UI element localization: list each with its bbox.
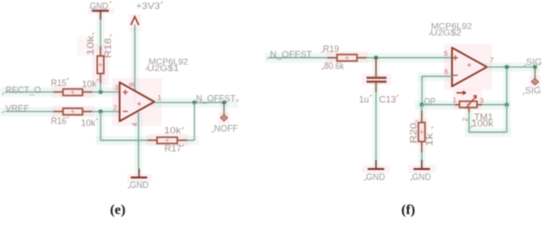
svg-text:N_OFFST: N_OFFST [196, 93, 236, 103]
wire feedback vertical [193, 103, 195, 141]
faint interior ghost line [135, 91, 139, 112]
svg-text:7: 7 [490, 57, 494, 64]
trimmer TM1 [453, 91, 494, 128]
svg-text:SIG: SIG [526, 57, 542, 67]
svg-text:1u: 1u [359, 95, 369, 105]
testpoint SIG diamond [523, 79, 541, 96]
node OP label [422, 97, 436, 107]
wire RECT_O to R15 [5, 91, 54, 93]
wire trimmer pin3 to output vertical [482, 104, 507, 106]
svg-text:C13: C13 [379, 95, 396, 105]
supply +3V3 [131, 1, 163, 25]
svg-text:1k: 1k [425, 132, 435, 146]
svg-text:R20: R20 [409, 123, 419, 144]
wire R19 to opamp +in [367, 57, 453, 59]
svg-text:N_OFFST: N_OFFST [270, 50, 312, 60]
svg-text:GND: GND [366, 172, 385, 183]
svg-text:R17: R17 [165, 144, 182, 154]
wire wiper loop [468, 108, 470, 113]
svg-text:10k: 10k [82, 79, 97, 89]
resistor R18 [86, 33, 114, 84]
ground GND (R20) [410, 160, 431, 183]
haze tints (jpeg-like) [0, 7, 541, 182]
svg-text:3: 3 [480, 98, 484, 105]
wire R18 to node A [100, 83, 102, 92]
svg-text:5: 5 [444, 51, 448, 58]
wire output down to trimmer loop [506, 67, 508, 132]
svg-text:10k: 10k [86, 35, 96, 56]
svg-text:R16: R16 [51, 116, 67, 126]
op-amp U2G$2 [429, 21, 494, 86]
resistor R16 [51, 108, 98, 128]
wire R16 to opamp -in [92, 111, 120, 113]
svg-text:1: 1 [158, 95, 162, 102]
wire OP to trimmer pin1 [422, 104, 455, 106]
svg-text:2: 2 [113, 105, 117, 112]
svg-text:(e): (e) [110, 203, 126, 218]
junction SIG tap [533, 65, 537, 69]
svg-text:NOFF: NOFF [214, 124, 238, 134]
svg-text:GND: GND [130, 180, 149, 191]
junction output [505, 65, 509, 69]
wire R20 to GND [421, 153, 423, 161]
svg-text:RECT_O: RECT_O [6, 85, 42, 95]
svg-text:10k: 10k [164, 126, 182, 136]
svg-text:(f): (f) [401, 203, 415, 218]
capacitor C13 [359, 58, 399, 105]
svg-text:+3V3: +3V3 [136, 1, 160, 12]
svg-text:SIG: SIG [525, 86, 541, 96]
resistor R15 [51, 78, 99, 96]
svg-text:U2G$2: U2G$2 [431, 28, 462, 38]
svg-text:100k: 100k [472, 119, 494, 129]
wire SIG testpoint stub [534, 67, 536, 79]
svg-text:80.6k: 80.6k [324, 61, 344, 71]
junction node A (+in) [99, 90, 103, 94]
svg-text:U2G$1: U2G$1 [147, 63, 179, 73]
svg-text:3: 3 [114, 85, 118, 92]
svg-text:R18: R18 [103, 38, 113, 58]
wire output row [154, 102, 227, 104]
wire opamp pin4 to GND [138, 112, 140, 168]
wire -in to OP node [422, 76, 452, 105]
wire feedback horizontal [101, 139, 195, 141]
svg-text:8: 8 [129, 83, 136, 87]
svg-text:R15: R15 [51, 78, 67, 88]
svg-text:GND: GND [412, 172, 431, 183]
node N_OFFST label [196, 93, 239, 103]
op-amp U2G$1 [113, 57, 188, 127]
node SIG label [524, 57, 542, 67]
wire output row SIG [487, 66, 537, 68]
ground GND (opamp pin4) [128, 169, 149, 191]
svg-text:VREF: VREF [6, 103, 30, 113]
testpoint NOFF diamond [212, 115, 238, 134]
wire testpoint stub [223, 103, 225, 115]
wire N_OFFST to R19 [269, 57, 328, 59]
wire R15 to opamp +in with junction [92, 91, 120, 93]
wire node B down [100, 112, 102, 141]
resistor R17 [148, 126, 188, 154]
wire C13 to GND [375, 92, 377, 160]
junction node B (-in) [99, 109, 103, 113]
ground GND (top, above R18) [90, 1, 112, 20]
junction output/feedback [192, 100, 196, 104]
wire VREF to R16 [5, 111, 54, 113]
svg-text:10k: 10k [81, 118, 96, 128]
junction testpoint tap [222, 101, 226, 105]
junction R19/C13 [374, 56, 378, 60]
ground GND (C13) [364, 160, 385, 183]
svg-text:1: 1 [453, 97, 457, 104]
node N_OFFST label [267, 50, 312, 60]
wire OP to R20 [421, 105, 423, 111]
resistor R19 [321, 44, 366, 71]
wire GND to R18 [100, 20, 102, 47]
junction OP [420, 103, 424, 107]
resistor R20 [409, 111, 435, 153]
wire +3V3 to opamp pin8 [134, 25, 136, 92]
svg-text:4: 4 [132, 123, 139, 127]
svg-text:R19: R19 [323, 44, 339, 54]
junction trimmer/output [505, 103, 509, 107]
svg-text:6: 6 [444, 69, 448, 76]
